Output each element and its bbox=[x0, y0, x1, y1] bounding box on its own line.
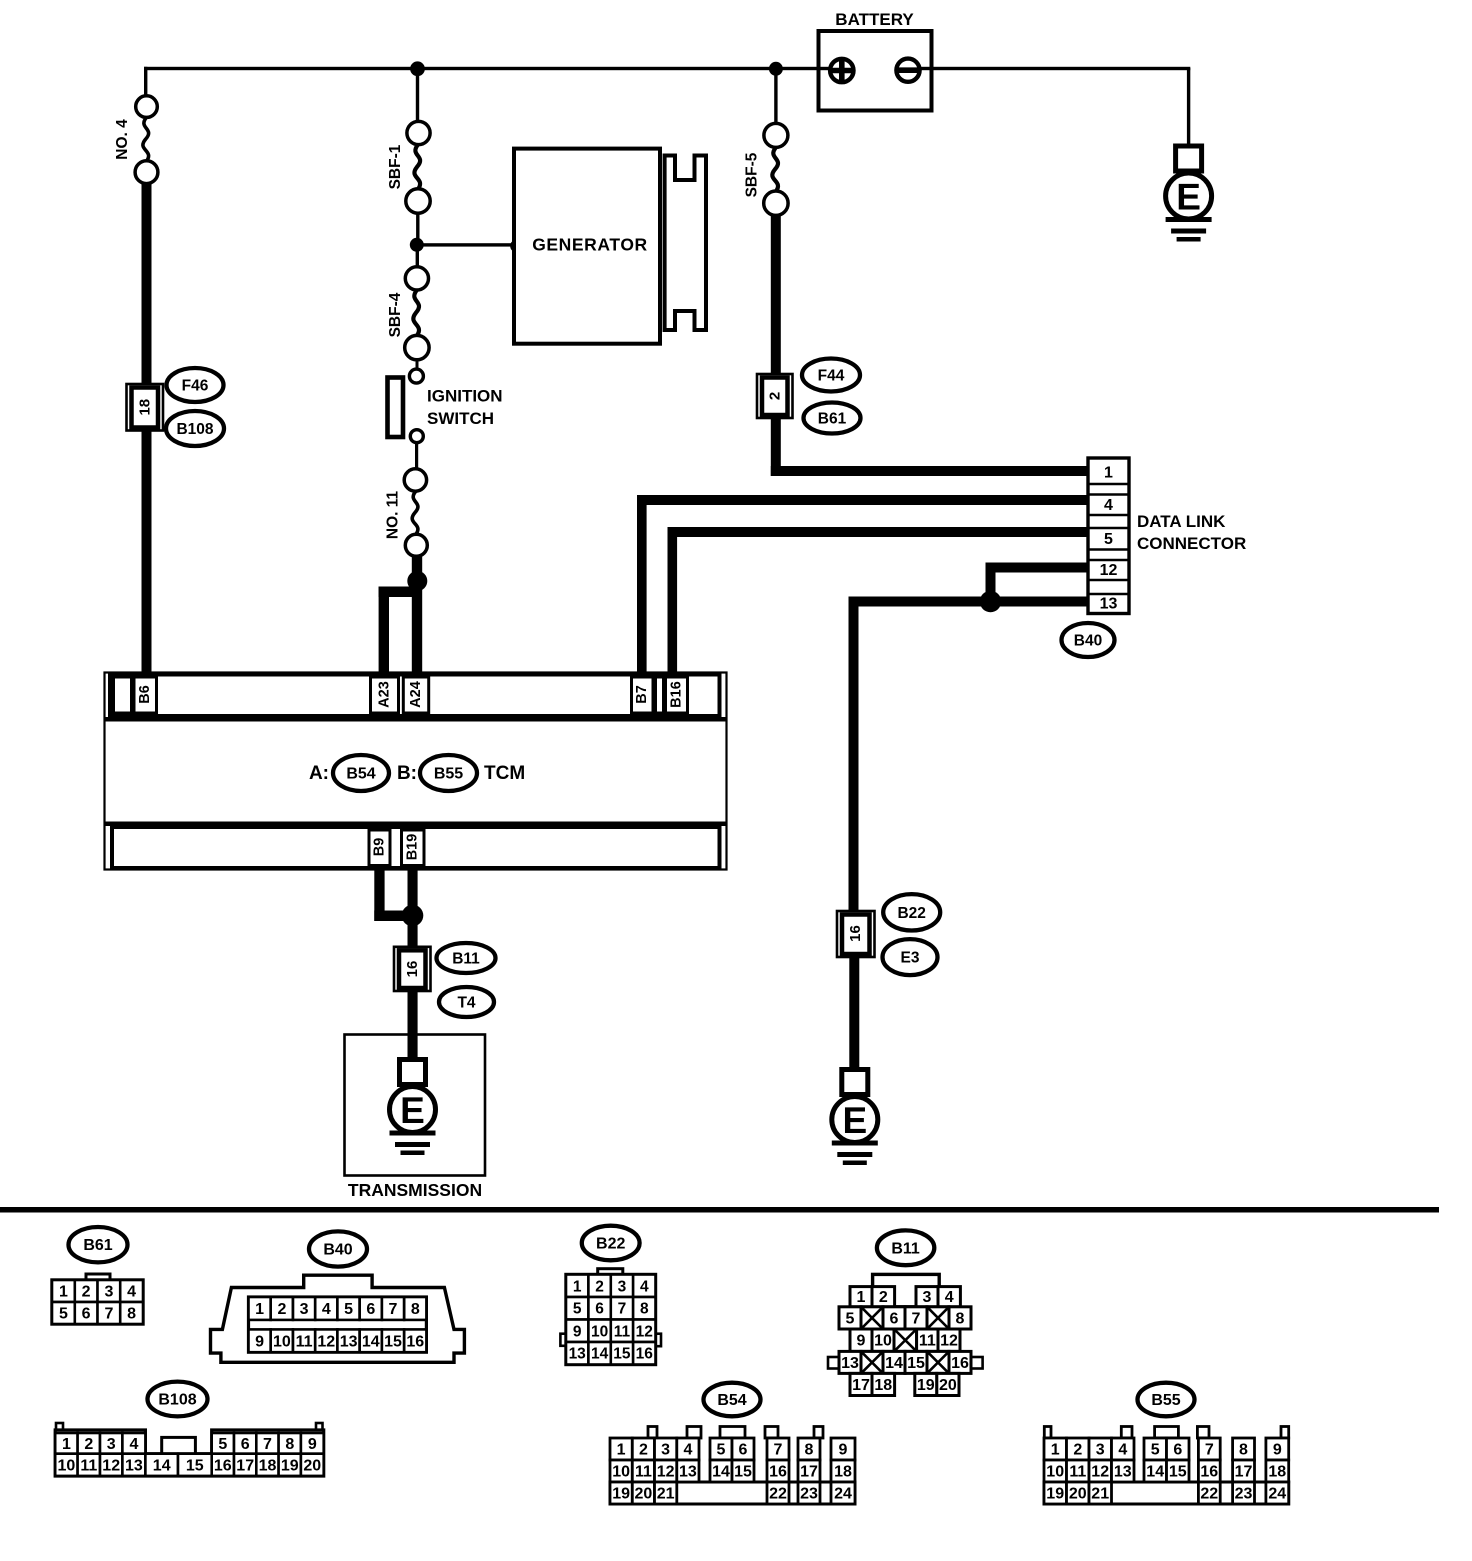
TCM outer box bbox=[105, 673, 727, 870]
fuse SBF-1 bbox=[407, 121, 430, 144]
oval B61 (pinout) bbox=[69, 1227, 128, 1262]
svg-text:13: 13 bbox=[1100, 596, 1118, 613]
svg-text:14: 14 bbox=[1146, 1464, 1164, 1481]
connector B54 pinout bbox=[648, 1427, 657, 1439]
svg-text:4: 4 bbox=[127, 1284, 136, 1301]
svg-text:DATA LINK: DATA LINK bbox=[1137, 512, 1226, 531]
oval B40 (pinout) bbox=[309, 1231, 367, 1266]
svg-text:19: 19 bbox=[917, 1377, 935, 1394]
svg-text:B108: B108 bbox=[158, 1392, 196, 1409]
svg-text:4: 4 bbox=[1118, 1442, 1127, 1459]
svg-text:E: E bbox=[842, 1100, 867, 1141]
wire: TCM B7 to DLC pin 4 bbox=[637, 495, 647, 680]
svg-text:B40: B40 bbox=[1074, 633, 1102, 650]
transmission box bbox=[345, 1035, 486, 1176]
svg-text:14: 14 bbox=[362, 1333, 380, 1350]
svg-text:9: 9 bbox=[857, 1333, 866, 1350]
svg-text:18: 18 bbox=[834, 1464, 852, 1481]
oval B108 bbox=[166, 411, 224, 446]
svg-text:7: 7 bbox=[389, 1301, 398, 1318]
svg-text:F44: F44 bbox=[818, 368, 845, 385]
svg-text:12: 12 bbox=[940, 1333, 958, 1350]
svg-text:20: 20 bbox=[939, 1377, 957, 1394]
svg-text:12: 12 bbox=[657, 1464, 675, 1481]
oval B11 (schematic) bbox=[437, 943, 496, 973]
svg-text:GENERATOR: GENERATOR bbox=[532, 235, 648, 255]
svg-text:2: 2 bbox=[277, 1301, 286, 1318]
svg-text:22: 22 bbox=[769, 1486, 787, 1503]
svg-text:20: 20 bbox=[303, 1457, 321, 1474]
svg-text:4: 4 bbox=[640, 1278, 649, 1295]
svg-text:1: 1 bbox=[857, 1289, 866, 1306]
wire: TCM B9 branch to junction bbox=[374, 866, 384, 921]
connector B11 pinout bbox=[873, 1274, 940, 1306]
svg-text:20: 20 bbox=[635, 1486, 653, 1503]
svg-text:2: 2 bbox=[595, 1278, 604, 1295]
svg-text:A:: A: bbox=[309, 763, 329, 784]
svg-text:19: 19 bbox=[1046, 1486, 1064, 1503]
generator box bbox=[514, 149, 660, 344]
svg-text:IGNITION: IGNITION bbox=[427, 387, 503, 406]
svg-text:B55: B55 bbox=[434, 766, 463, 783]
svg-text:8: 8 bbox=[411, 1301, 420, 1318]
svg-text:8: 8 bbox=[285, 1436, 294, 1453]
svg-text:1: 1 bbox=[62, 1436, 71, 1453]
svg-text:5: 5 bbox=[573, 1301, 582, 1318]
svg-text:2: 2 bbox=[84, 1436, 93, 1453]
svg-text:20: 20 bbox=[1069, 1486, 1087, 1503]
svg-text:4: 4 bbox=[322, 1301, 331, 1318]
svg-text:23: 23 bbox=[800, 1486, 818, 1503]
wire: NO.4 fuse to connector 18 to TCM B6 bbox=[142, 182, 152, 385]
wire: NO.11 to junction to TCM A24 bbox=[412, 555, 422, 680]
TCM bottom connector strip bbox=[105, 822, 727, 827]
svg-text:5: 5 bbox=[1104, 531, 1113, 548]
svg-text:6: 6 bbox=[595, 1301, 604, 1318]
svg-text:13: 13 bbox=[569, 1346, 587, 1363]
wire: connector B11-16 to transmission ground bbox=[408, 990, 418, 1060]
TCM pin B6 bbox=[134, 677, 157, 713]
svg-text:15: 15 bbox=[907, 1355, 925, 1372]
TCM pin A23 bbox=[371, 677, 399, 713]
svg-text:10: 10 bbox=[58, 1457, 76, 1474]
wire: ignition switch to NO.11 fuse bbox=[415, 442, 418, 470]
svg-text:8: 8 bbox=[1239, 1442, 1248, 1459]
svg-text:B:: B: bbox=[397, 763, 417, 784]
svg-text:16: 16 bbox=[1200, 1464, 1218, 1481]
connector B108 pinout bbox=[56, 1423, 63, 1431]
svg-text:17: 17 bbox=[852, 1377, 870, 1394]
connector 16 (B22/E3) bbox=[837, 911, 875, 957]
svg-text:3: 3 bbox=[923, 1289, 932, 1306]
svg-text:3: 3 bbox=[618, 1278, 627, 1295]
junction node: bus / SBF-5 branch bbox=[774, 68, 777, 124]
svg-text:3: 3 bbox=[300, 1301, 309, 1318]
svg-text:17: 17 bbox=[236, 1457, 254, 1474]
data link connector bbox=[1088, 458, 1129, 614]
svg-text:5: 5 bbox=[59, 1306, 68, 1323]
svg-text:5: 5 bbox=[846, 1310, 855, 1327]
connector B55 pinout bbox=[1044, 1427, 1051, 1439]
svg-text:17: 17 bbox=[800, 1464, 818, 1481]
svg-text:B7: B7 bbox=[634, 685, 650, 704]
svg-text:B11: B11 bbox=[891, 1240, 920, 1257]
ground E3 bbox=[842, 1070, 868, 1095]
separator line bbox=[0, 1207, 1439, 1213]
svg-text:3: 3 bbox=[1096, 1442, 1105, 1459]
svg-text:SBF-4: SBF-4 bbox=[387, 292, 404, 337]
oval B22 (schematic) bbox=[883, 894, 940, 930]
wire: DLC pin 13 to connector B22-16 bbox=[849, 597, 1091, 607]
TCM pin B16 bbox=[666, 677, 688, 713]
wire: TCM B16 to DLC pin 5 bbox=[668, 527, 678, 680]
svg-text:24: 24 bbox=[1268, 1486, 1286, 1503]
svg-text:SWITCH: SWITCH bbox=[427, 409, 494, 428]
svg-text:B22: B22 bbox=[596, 1236, 625, 1253]
wire: TCM B19 to connector B11-16 bbox=[408, 866, 418, 948]
svg-text:14: 14 bbox=[885, 1355, 903, 1372]
svg-text:6: 6 bbox=[366, 1301, 375, 1318]
svg-text:10: 10 bbox=[273, 1333, 291, 1350]
svg-text:9: 9 bbox=[308, 1436, 317, 1453]
svg-text:E: E bbox=[400, 1090, 425, 1131]
junction node: DLC pin 12/13 bbox=[980, 591, 1001, 612]
svg-text:T4: T4 bbox=[457, 995, 475, 1012]
svg-text:11: 11 bbox=[635, 1464, 652, 1481]
connector 2 (F44/B61) bbox=[757, 374, 793, 418]
svg-text:10: 10 bbox=[591, 1323, 608, 1340]
oval B40 (schematic) bbox=[1062, 623, 1115, 657]
svg-text:B108: B108 bbox=[176, 421, 213, 438]
svg-text:11: 11 bbox=[919, 1333, 936, 1350]
svg-text:6: 6 bbox=[82, 1306, 91, 1323]
svg-text:17: 17 bbox=[1235, 1464, 1253, 1481]
svg-text:10: 10 bbox=[612, 1464, 630, 1481]
svg-text:21: 21 bbox=[1091, 1486, 1109, 1503]
svg-text:12: 12 bbox=[102, 1457, 120, 1474]
wire: connector B22-16 to ground E3 bbox=[849, 956, 859, 1071]
wire: SBF-1 to generator junction bbox=[416, 212, 419, 240]
node: generator terminal bbox=[510, 239, 523, 252]
svg-text:11: 11 bbox=[1069, 1464, 1086, 1481]
svg-text:18: 18 bbox=[259, 1457, 277, 1474]
svg-text:3: 3 bbox=[107, 1436, 116, 1453]
svg-text:B22: B22 bbox=[897, 905, 925, 922]
svg-text:B16: B16 bbox=[669, 681, 685, 708]
svg-text:3: 3 bbox=[104, 1284, 113, 1301]
svg-text:1: 1 bbox=[255, 1301, 264, 1318]
svg-text:23: 23 bbox=[1235, 1486, 1253, 1503]
TCM pin B9 bbox=[369, 830, 390, 866]
svg-text:6: 6 bbox=[890, 1310, 899, 1327]
wire: branch to TCM A23 bbox=[379, 587, 422, 598]
svg-text:TCM: TCM bbox=[484, 763, 525, 784]
svg-text:9: 9 bbox=[573, 1323, 582, 1340]
svg-text:7: 7 bbox=[618, 1301, 627, 1318]
TCM pin B19 bbox=[402, 830, 425, 866]
svg-text:10: 10 bbox=[874, 1333, 892, 1350]
svg-text:8: 8 bbox=[956, 1310, 965, 1327]
battery terminals bbox=[830, 59, 853, 82]
svg-text:B55: B55 bbox=[1151, 1392, 1180, 1409]
svg-text:13: 13 bbox=[679, 1464, 697, 1481]
svg-text:NO. 4: NO. 4 bbox=[114, 119, 131, 160]
oval B55 (pinout) bbox=[1138, 1383, 1195, 1417]
svg-text:SBF-1: SBF-1 bbox=[387, 144, 404, 189]
svg-text:5: 5 bbox=[717, 1442, 726, 1459]
svg-text:11: 11 bbox=[80, 1457, 97, 1474]
svg-text:10: 10 bbox=[1046, 1464, 1064, 1481]
svg-text:5: 5 bbox=[344, 1301, 353, 1318]
svg-text:B54: B54 bbox=[346, 766, 375, 783]
svg-text:F46: F46 bbox=[182, 378, 209, 395]
svg-text:12: 12 bbox=[636, 1323, 653, 1340]
svg-text:TRANSMISSION: TRANSMISSION bbox=[348, 1180, 482, 1200]
svg-text:7: 7 bbox=[774, 1442, 783, 1459]
svg-text:18: 18 bbox=[1268, 1464, 1286, 1481]
svg-text:7: 7 bbox=[104, 1306, 113, 1323]
svg-text:B11: B11 bbox=[452, 951, 480, 968]
svg-text:22: 22 bbox=[1200, 1486, 1218, 1503]
svg-text:2: 2 bbox=[766, 392, 783, 400]
oval B11 (pinout) bbox=[877, 1230, 934, 1265]
wire: connector 2 to DLC pin 1 bbox=[771, 417, 781, 476]
wire: battery - to right ground bbox=[908, 67, 1190, 70]
svg-text:16: 16 bbox=[636, 1346, 654, 1363]
svg-text:15: 15 bbox=[384, 1333, 402, 1350]
svg-text:14: 14 bbox=[712, 1464, 730, 1481]
svg-text:12: 12 bbox=[317, 1333, 335, 1350]
svg-text:9: 9 bbox=[255, 1333, 264, 1350]
svg-text:6: 6 bbox=[241, 1436, 250, 1453]
svg-text:3: 3 bbox=[661, 1442, 670, 1459]
battery B box bbox=[819, 31, 932, 111]
svg-text:12: 12 bbox=[1100, 562, 1118, 579]
svg-text:16: 16 bbox=[769, 1464, 787, 1481]
oval B108 (pinout) bbox=[148, 1382, 208, 1417]
svg-text:B54: B54 bbox=[717, 1392, 746, 1409]
generator pulley bbox=[665, 156, 706, 331]
oval B54 (pinout) bbox=[704, 1383, 761, 1417]
oval E3 bbox=[883, 939, 938, 975]
svg-text:16: 16 bbox=[951, 1355, 969, 1372]
svg-text:18: 18 bbox=[874, 1377, 892, 1394]
svg-text:BATTERY: BATTERY bbox=[835, 10, 914, 29]
junction node: B9/B19 bbox=[402, 905, 424, 927]
svg-text:1: 1 bbox=[1051, 1442, 1060, 1459]
svg-text:13: 13 bbox=[841, 1355, 859, 1372]
svg-text:15: 15 bbox=[734, 1464, 752, 1481]
svg-text:21: 21 bbox=[657, 1486, 675, 1503]
svg-text:A24: A24 bbox=[408, 681, 424, 708]
svg-text:B6: B6 bbox=[137, 685, 153, 704]
wire: SBF-5 to connector 2 bbox=[771, 215, 781, 376]
TCM pin cell empty-left bbox=[114, 677, 132, 713]
svg-text:4: 4 bbox=[683, 1442, 692, 1459]
svg-text:1: 1 bbox=[59, 1284, 68, 1301]
svg-text:SBF-5: SBF-5 bbox=[744, 152, 761, 197]
connector B40 pinout bbox=[211, 1275, 465, 1362]
junction node: SBF-1/SBF-4/generator bbox=[410, 238, 424, 252]
svg-text:19: 19 bbox=[612, 1486, 630, 1503]
ignition switch bbox=[409, 369, 423, 383]
svg-text:2: 2 bbox=[879, 1289, 888, 1306]
wire: SBF-4 to ignition switch bbox=[416, 358, 419, 370]
TCM pin A24 bbox=[403, 677, 428, 713]
svg-text:15: 15 bbox=[1169, 1464, 1187, 1481]
svg-text:8: 8 bbox=[127, 1306, 136, 1323]
fuse SBF-5 bbox=[764, 123, 788, 147]
oval B22 (pinout) bbox=[582, 1226, 640, 1261]
svg-text:A23: A23 bbox=[377, 681, 393, 708]
svg-text:11: 11 bbox=[614, 1323, 631, 1340]
ground E (transmission) bbox=[400, 1060, 426, 1085]
oval F46 bbox=[167, 368, 224, 402]
svg-text:6: 6 bbox=[739, 1442, 748, 1459]
svg-text:16: 16 bbox=[847, 925, 864, 942]
svg-text:B9: B9 bbox=[372, 838, 388, 857]
wire: drop to NO.4 fuse bbox=[144, 67, 147, 96]
fuse NO. 4 bbox=[136, 96, 158, 118]
svg-text:15: 15 bbox=[186, 1457, 204, 1474]
svg-text:13: 13 bbox=[340, 1333, 358, 1350]
svg-text:5: 5 bbox=[218, 1436, 227, 1453]
svg-text:2: 2 bbox=[639, 1442, 648, 1459]
svg-text:4: 4 bbox=[129, 1436, 138, 1453]
svg-text:9: 9 bbox=[1273, 1442, 1282, 1459]
svg-text:B61: B61 bbox=[818, 411, 847, 428]
svg-text:16: 16 bbox=[214, 1457, 232, 1474]
svg-text:5: 5 bbox=[1151, 1442, 1160, 1459]
svg-text:7: 7 bbox=[912, 1310, 921, 1327]
svg-text:6: 6 bbox=[1173, 1442, 1182, 1459]
svg-text:2: 2 bbox=[1073, 1442, 1082, 1459]
oval B61 (schematic) bbox=[804, 403, 861, 434]
svg-text:B61: B61 bbox=[83, 1237, 112, 1254]
svg-text:14: 14 bbox=[153, 1457, 171, 1474]
svg-text:1: 1 bbox=[617, 1442, 626, 1459]
TCM pin cell empty-mid bbox=[656, 677, 664, 713]
wire: main bus from NO.4 fuse to battery + bbox=[144, 67, 841, 70]
junction node: A23/A24 branch bbox=[407, 571, 427, 591]
svg-text:B40: B40 bbox=[323, 1242, 352, 1259]
svg-text:19: 19 bbox=[281, 1457, 299, 1474]
svg-text:4: 4 bbox=[1104, 497, 1113, 514]
svg-text:24: 24 bbox=[834, 1486, 852, 1503]
oval F44 bbox=[802, 359, 860, 392]
svg-text:9: 9 bbox=[839, 1442, 848, 1459]
junction node: bus / SBF-1 branch bbox=[416, 68, 419, 123]
oval T4 bbox=[439, 987, 494, 1017]
connector 18 (F46/B108) bbox=[127, 384, 164, 431]
svg-text:NO. 11: NO. 11 bbox=[385, 490, 402, 539]
svg-text:E: E bbox=[1176, 177, 1201, 218]
svg-text:2: 2 bbox=[82, 1284, 91, 1301]
svg-text:B19: B19 bbox=[405, 834, 421, 861]
wire: junction to SBF-4 bbox=[416, 250, 419, 267]
fuse NO. 11 bbox=[404, 469, 426, 491]
svg-text:8: 8 bbox=[805, 1442, 814, 1459]
svg-text:7: 7 bbox=[263, 1436, 272, 1453]
svg-text:1: 1 bbox=[1104, 465, 1113, 482]
TCM top connector strip bbox=[110, 675, 720, 717]
svg-text:13: 13 bbox=[1114, 1464, 1132, 1481]
svg-text:7: 7 bbox=[1205, 1442, 1214, 1459]
svg-text:15: 15 bbox=[613, 1346, 631, 1363]
svg-text:14: 14 bbox=[591, 1346, 609, 1363]
svg-text:11: 11 bbox=[296, 1333, 313, 1350]
wire: DLC pin 12 branch bbox=[986, 563, 1091, 573]
TCM pin B7 bbox=[632, 677, 654, 713]
svg-text:8: 8 bbox=[640, 1301, 649, 1318]
wire: junction to generator bbox=[416, 243, 517, 246]
connector 16 (B11/T4) bbox=[394, 947, 431, 991]
svg-text:13: 13 bbox=[125, 1457, 143, 1474]
fuse SBF-4 bbox=[405, 267, 428, 290]
svg-text:E3: E3 bbox=[901, 950, 920, 967]
ground E (battery) bbox=[1176, 146, 1202, 171]
svg-text:4: 4 bbox=[945, 1289, 954, 1306]
connector B61 pinout bbox=[86, 1274, 110, 1281]
svg-text:18: 18 bbox=[136, 399, 153, 416]
svg-text:16: 16 bbox=[406, 1333, 424, 1350]
svg-text:1: 1 bbox=[573, 1278, 582, 1295]
connector B22 pinout bbox=[598, 1269, 623, 1276]
svg-text:CONNECTOR: CONNECTOR bbox=[1137, 534, 1246, 553]
svg-text:12: 12 bbox=[1091, 1464, 1109, 1481]
svg-text:16: 16 bbox=[404, 961, 421, 978]
